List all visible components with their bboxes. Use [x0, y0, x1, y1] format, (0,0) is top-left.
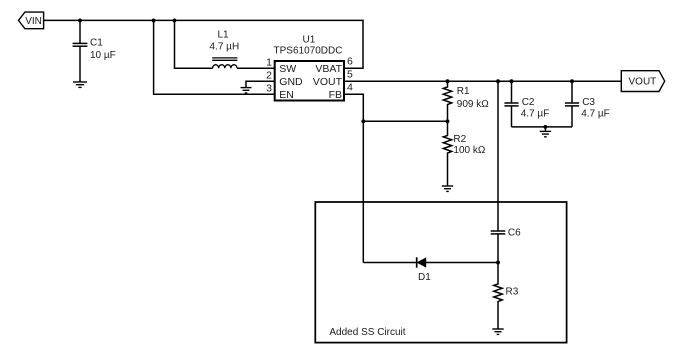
- svg-text:4.7 µF: 4.7 µF: [581, 108, 610, 119]
- svg-text:VBAT: VBAT: [315, 63, 342, 75]
- output flag VOUT: [621, 71, 664, 92]
- svg-text:EN: EN: [279, 89, 294, 101]
- wire VOUT net: [344, 80, 621, 82]
- svg-text:4.7 µF: 4.7 µF: [521, 108, 550, 119]
- node junction EN tap: [152, 18, 156, 22]
- wire L1 branch: [175, 20, 213, 68]
- svg-text:Added SS Circuit: Added SS Circuit: [329, 327, 405, 338]
- node junction R1/R2: [446, 119, 450, 123]
- resistor R2: [443, 121, 486, 185]
- svg-text:C3: C3: [582, 97, 595, 108]
- svg-text:4: 4: [347, 81, 353, 93]
- svg-text:2: 2: [266, 69, 272, 81]
- svg-text:R2: R2: [453, 134, 466, 145]
- svg-text:SW: SW: [279, 63, 296, 75]
- svg-text:VIN: VIN: [25, 16, 42, 27]
- node junction R1 top: [446, 79, 450, 83]
- ground (C1): [73, 82, 87, 87]
- ground (C2/C3): [540, 131, 551, 136]
- svg-text:U1: U1: [303, 35, 316, 46]
- svg-text:10 µF: 10 µF: [90, 50, 116, 61]
- svg-text:909 kΩ: 909 kΩ: [457, 99, 489, 110]
- svg-text:3: 3: [266, 82, 272, 94]
- node junction SS branch top: [496, 79, 500, 83]
- wire SS branch vertical: [497, 81, 499, 230]
- wire EN branch: [154, 20, 275, 94]
- diode D1: [416, 257, 431, 283]
- svg-text:C1: C1: [90, 38, 103, 49]
- inductor L1: [210, 29, 240, 68]
- capacitor C3: [565, 81, 610, 127]
- ground (GND pin): [241, 88, 252, 93]
- svg-text:VOUT: VOUT: [313, 76, 343, 88]
- node junction caps ground tap: [543, 125, 547, 129]
- wire D1 anode side: [426, 262, 498, 264]
- node junction C3 top: [570, 79, 574, 83]
- op-amp U1 (IC TPS61070DDC): [274, 35, 345, 101]
- svg-text:100 kΩ: 100 kΩ: [453, 145, 485, 156]
- capacitor C6: [491, 227, 521, 262]
- wire L1 to SW: [237, 67, 275, 69]
- capacitor C2: [504, 81, 549, 127]
- SS circuit box: [315, 202, 566, 343]
- wire ground stub: [544, 127, 546, 131]
- ground (R3): [492, 329, 503, 334]
- svg-text:R1: R1: [457, 86, 470, 97]
- svg-text:D1: D1: [418, 272, 431, 283]
- wire top net VIN to VBAT loop: [44, 20, 363, 68]
- svg-text:5: 5: [347, 68, 353, 80]
- svg-text:C2: C2: [522, 97, 535, 108]
- node junction C1 tap: [78, 18, 82, 22]
- svg-text:L1: L1: [218, 29, 230, 40]
- svg-text:R3: R3: [506, 286, 519, 297]
- svg-text:C6: C6: [508, 227, 521, 238]
- capacitor C1: [73, 20, 116, 81]
- svg-text:4.7 µH: 4.7 µH: [210, 42, 240, 53]
- node junction L1 tap: [173, 18, 177, 22]
- ground (R2): [442, 186, 453, 191]
- wire FB to divider midpoint: [363, 120, 447, 122]
- svg-text:1: 1: [266, 56, 272, 68]
- input flag VIN: [19, 12, 44, 29]
- wire FB branch: [344, 94, 363, 262]
- svg-text:6: 6: [347, 55, 353, 67]
- wire GND pin to ground: [246, 81, 275, 87]
- svg-text:FB: FB: [329, 89, 342, 101]
- svg-text:GND: GND: [279, 76, 303, 88]
- node junction FB divider: [361, 119, 365, 123]
- wire C2/C3 bottoms: [512, 126, 573, 128]
- svg-text:VOUT: VOUT: [629, 77, 657, 88]
- node junction C6/R3/D1: [496, 261, 500, 265]
- resistor R1: [443, 81, 489, 121]
- wire D1 cathode side: [363, 262, 416, 264]
- svg-text:TPS61070DDC: TPS61070DDC: [274, 46, 343, 57]
- node junction C2 top: [510, 79, 514, 83]
- resistor R3: [494, 263, 519, 329]
